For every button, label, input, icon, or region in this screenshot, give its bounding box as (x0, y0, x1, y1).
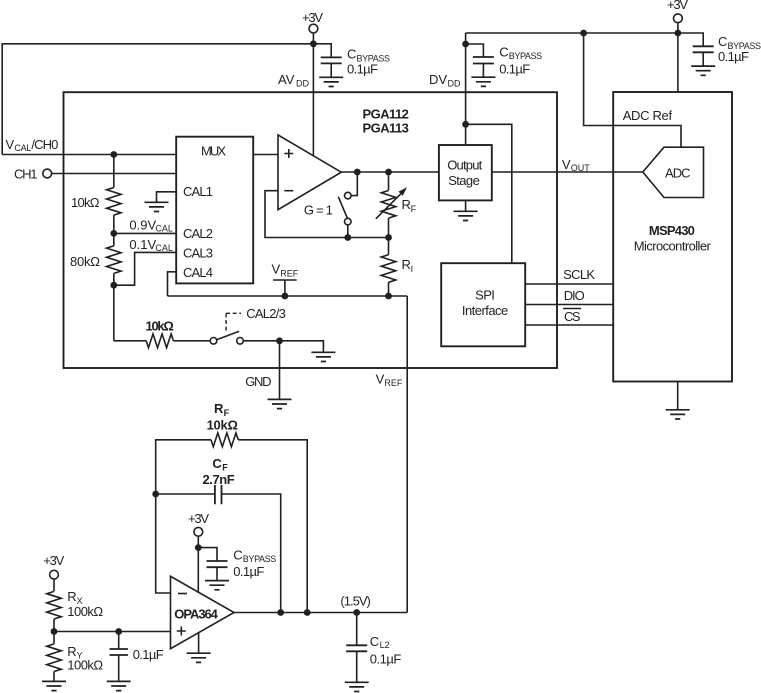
terminal CH1 (43, 169, 52, 178)
svg-text:V: V (6, 137, 15, 152)
svg-text:CH1: CH1 (14, 167, 38, 182)
label 0.1VCAL (129, 237, 173, 253)
label VREF below box (376, 371, 403, 388)
svg-text:R: R (214, 401, 224, 416)
wire switch upper lead (351, 172, 357, 196)
label CS with overbar (563, 309, 581, 324)
svg-text:CAL: CAL (14, 143, 31, 153)
wire RF bottom lead (388, 218, 390, 237)
resistor RF variable (381, 191, 396, 219)
wire VREF drop to buffer output (406, 296, 408, 613)
wire plus input row (54, 631, 171, 633)
label CBYPASS2 (499, 45, 542, 62)
wire op-amp output row (341, 171, 439, 173)
node MSP supply junction (675, 30, 682, 37)
+3V terminal (AVDD supply) (302, 10, 323, 33)
node output to RF (385, 169, 392, 176)
svg-text:CAL3: CAL3 (183, 245, 213, 260)
svg-text:+3V: +3V (667, 0, 688, 12)
Output Stage box (439, 145, 492, 200)
svg-text:F: F (411, 204, 417, 214)
node DVDD cap tap (462, 41, 469, 48)
ground Output Stage (454, 211, 478, 220)
wire CF right leg (222, 494, 281, 613)
wire CAL2 (114, 232, 176, 234)
wire RF top lead (388, 172, 390, 191)
label RI (402, 257, 414, 274)
ground CBYPASS2 (471, 77, 495, 86)
svg-text:100kΩ: 100kΩ (67, 658, 103, 673)
op-amp A1 minus sign (284, 190, 293, 192)
wire CBYPASS1 to ground (330, 63, 332, 77)
svg-text:OUT: OUT (571, 163, 591, 173)
svg-text:10kΩ: 10kΩ (71, 195, 100, 210)
svg-text:C: C (212, 456, 222, 471)
capacitor CF (215, 485, 222, 504)
op-amp OPA364 plus sign (177, 627, 186, 636)
switch G1 upper contact (345, 192, 352, 199)
svg-text:BYPASS: BYPASS (509, 51, 543, 61)
wire filter cap top lead (118, 632, 120, 650)
svg-text:CAL2/3: CAL2/3 (246, 306, 285, 321)
node ADC Ref tap (580, 30, 587, 37)
svg-text:80kΩ: 80kΩ (70, 254, 100, 269)
wire filter cap to ground (118, 655, 120, 681)
wire CH1 input (51, 173, 176, 175)
wire DIO (525, 304, 613, 306)
label RF2 (214, 401, 230, 418)
MSP430 box (613, 92, 732, 382)
svg-text:DIO: DIO (564, 288, 585, 303)
wire OPA364 to ground (198, 633, 200, 654)
wire 80k bottom lead (113, 273, 115, 285)
svg-text:10kΩ: 10kΩ (207, 418, 238, 433)
node RI to VREF row (385, 293, 392, 300)
wire VREF tick bar (273, 279, 297, 281)
ground CBYPASS1 (319, 77, 343, 86)
node DVDD to SPI tap (462, 121, 469, 128)
wire +3V OPA stem (197, 536, 199, 593)
svg-text:R: R (402, 257, 411, 272)
svg-text:C: C (718, 34, 727, 49)
wire DVDD branch to SPI (466, 124, 512, 263)
wire DVDD top rail (466, 33, 704, 46)
label CBYPASS4 (233, 547, 276, 564)
svg-text:0.1µF: 0.1µF (499, 61, 530, 76)
wire RI bottom lead (388, 282, 390, 296)
node input filter cap tap (115, 628, 122, 635)
ground CAL1 (145, 202, 169, 211)
svg-text:10kΩ: 10kΩ (146, 318, 174, 333)
svg-text:G = 1: G = 1 (304, 202, 333, 217)
capacitor input filter 0.1uF (110, 649, 128, 655)
switch G1 lower contact (345, 218, 352, 225)
op-amp A1 plus sign (284, 149, 293, 158)
+3V terminal OPA364 (188, 511, 209, 536)
wire DVDD rail down to Output Stage (465, 33, 467, 144)
svg-text:0.9V: 0.9V (129, 217, 156, 232)
wire 10k cal to switch (173, 340, 210, 342)
wire RF2 right leg (238, 440, 307, 613)
svg-text:DV: DV (429, 72, 447, 87)
wire CBYPASS3 to ground (702, 52, 704, 66)
svg-text:ADC: ADC (665, 166, 691, 181)
wire switch to ground branch (243, 341, 323, 353)
svg-text:+3V: +3V (43, 553, 64, 568)
wire divider to 10k cal resistor (114, 340, 146, 342)
svg-text:AV: AV (278, 72, 295, 87)
wire ADC Ref (584, 33, 681, 147)
wire +3V stem right (677, 23, 679, 33)
PGA112/PGA113 device box (64, 92, 558, 368)
svg-text:CAL: CAL (155, 224, 173, 234)
wire VREF row (168, 295, 408, 297)
svg-text:REF: REF (280, 268, 299, 278)
svg-text:0.1µF: 0.1µF (718, 49, 749, 64)
node switch to feedback row (344, 234, 351, 241)
svg-text:(1.5V): (1.5V) (340, 594, 371, 609)
svg-text:C: C (347, 47, 356, 62)
wire top-left feedback loop (VCAL to +3V) (2, 44, 313, 155)
svg-text:100kΩ: 100kΩ (67, 604, 103, 619)
MUX box (176, 137, 253, 284)
wire op-amp feedback to minus input (265, 191, 389, 238)
wire +3V stem (312, 33, 314, 44)
svg-text:F: F (224, 408, 230, 418)
node CF tap (152, 491, 159, 498)
svg-text:Interface: Interface (462, 303, 508, 318)
capacitor CBYPASS1 (321, 57, 342, 63)
wire RY bottom lead (53, 672, 55, 682)
wire CAL4 link to VREF row (168, 272, 177, 296)
+3V terminal top right (MSP supply) (667, 0, 688, 23)
ground CL2 (345, 682, 369, 691)
switch CAL23 right contact (237, 338, 244, 345)
resistor RI (381, 255, 396, 283)
resistor RY (47, 644, 62, 672)
svg-text:DD: DD (448, 79, 461, 89)
wire AVDD rail down to op-amp (312, 44, 314, 156)
op-amp OPA364 triangle (171, 576, 235, 648)
svg-text:Output: Output (447, 158, 482, 173)
SPI Interface box (441, 263, 525, 346)
wire MUX out to op-amp (253, 154, 278, 156)
label RY (67, 644, 82, 661)
svg-text:Microcontroller: Microcontroller (634, 238, 712, 253)
wire branch to CBYPASS2 (466, 44, 484, 57)
wire 10k bottom lead (113, 215, 115, 233)
wire SCLK (525, 283, 613, 285)
svg-text:Stage: Stage (448, 173, 480, 188)
+3V terminal RX (43, 553, 64, 579)
svg-text:CAL2: CAL2 (183, 226, 213, 241)
svg-text:OPA364: OPA364 (174, 607, 218, 622)
svg-text:GND: GND (245, 374, 271, 389)
ground MSP430 (666, 410, 690, 419)
svg-text:ADC Ref: ADC Ref (623, 108, 673, 123)
label RX (67, 589, 82, 606)
wire branch to CBYPASS4 (198, 548, 217, 561)
label AVDD pin (278, 72, 309, 89)
wire RX bottom lead (53, 619, 55, 632)
label CBYPASS1 (347, 47, 390, 64)
svg-text:C: C (370, 634, 379, 649)
wire GND stem (279, 341, 281, 400)
svg-text:V: V (562, 157, 571, 172)
svg-text:L2: L2 (380, 640, 390, 650)
label CL2 (370, 634, 390, 650)
node CL2 tap (353, 609, 360, 616)
svg-text:2.7nF: 2.7nF (203, 472, 235, 487)
label 0.9VCAL (129, 217, 173, 233)
svg-text:DD: DD (296, 79, 309, 89)
wire MSP430 to ground (677, 382, 679, 410)
svg-text:0.1µF: 0.1µF (370, 651, 402, 666)
svg-text:/CH0: /CH0 (31, 137, 58, 152)
wire CBYPASS2 to ground (482, 64, 484, 78)
ADC pentagon (643, 147, 704, 197)
ground RY (42, 681, 66, 690)
svg-text:0.1µF: 0.1µF (347, 62, 378, 77)
wire CL2 top lead (356, 613, 358, 646)
node 80k bottom junction (110, 282, 117, 289)
wire RF2 feedback loop (156, 440, 211, 494)
wire VREF tick stem (284, 280, 286, 296)
label DVDD pin (429, 72, 461, 89)
wire divider down to cal switch row (113, 285, 115, 341)
wire VOUT (492, 171, 643, 173)
resistor 10k divider top (107, 188, 122, 216)
svg-text:V: V (272, 262, 281, 277)
svg-text:R: R (67, 589, 76, 604)
svg-text:PGA113: PGA113 (363, 121, 409, 136)
switch CAL23 lever (217, 331, 239, 339)
wire feedback to minus input (156, 494, 171, 593)
svg-text:SPI: SPI (475, 288, 495, 303)
node RX RY junction (51, 628, 58, 635)
ground GND pin (268, 399, 292, 408)
svg-text:C: C (233, 547, 242, 562)
node CF leg (277, 609, 284, 616)
capacitor CBYPASS4 (207, 561, 228, 567)
label RF (402, 197, 417, 214)
ground CBYPASS4 (205, 581, 229, 590)
svg-text:0.1V: 0.1V (129, 237, 156, 252)
resistor 80k divider bottom (107, 246, 122, 274)
svg-text:REF: REF (384, 378, 403, 388)
ground filter cap (107, 681, 131, 690)
wire MSP supply down (677, 33, 679, 92)
node OPA supply tap (195, 544, 202, 551)
svg-text:PGA112: PGA112 (363, 107, 409, 122)
wire CS (525, 324, 613, 326)
wire RX top lead (53, 579, 55, 591)
wire switch lower lead (347, 225, 349, 238)
arrow RF variable (376, 193, 402, 219)
ground OPA364 (187, 653, 211, 662)
wire 80k top lead (113, 233, 115, 245)
capacitor CBYPASS2 (473, 57, 494, 64)
op-amp OPA364 minus sign (178, 593, 187, 595)
wire CAL3 link (114, 252, 176, 285)
svg-text:C: C (499, 45, 508, 60)
wire RI top lead (388, 238, 390, 255)
svg-text:BYPASS: BYPASS (243, 554, 276, 564)
wire CF left lead (156, 493, 215, 495)
ground cal switch (311, 352, 335, 361)
wire CL2 to ground (356, 651, 358, 682)
wire CAL1 to ground (157, 192, 177, 203)
wire 10k top lead (113, 155, 115, 188)
svg-text:CS: CS (564, 309, 581, 324)
label VREF internal (272, 262, 299, 279)
label CBYPASS3 (718, 34, 761, 51)
label VOUT (562, 157, 590, 173)
node CAL2 tap (110, 230, 117, 237)
svg-text:0.1µF: 0.1µF (133, 647, 164, 662)
svg-text:F: F (222, 462, 228, 472)
wire branch to CBYPASS1 (313, 44, 331, 58)
node RF RI junction (385, 234, 392, 241)
dashed control line CAL23 (226, 313, 241, 330)
resistor 10k cal (146, 334, 173, 348)
node VCAL divider tap (110, 151, 117, 158)
switch CAL23 left contact (210, 338, 217, 345)
svg-text:R: R (67, 644, 76, 659)
svg-text:MUX: MUX (201, 144, 226, 159)
node GND stem (276, 337, 283, 344)
svg-text:SCLK: SCLK (563, 267, 595, 282)
svg-text:R: R (402, 197, 411, 212)
label CF (212, 456, 228, 472)
label VCAL/CH0 input (6, 137, 59, 153)
svg-text:MSP430: MSP430 (649, 223, 695, 238)
arrowhead RF (399, 187, 408, 196)
node RF2 leg (304, 609, 311, 616)
svg-text:V: V (376, 371, 385, 386)
node AVDD junction (310, 40, 317, 47)
resistor RX (47, 591, 62, 619)
wire OPA364 output row (234, 612, 407, 614)
capacitor CBYPASS3 (693, 46, 714, 52)
svg-text:0.1µF: 0.1µF (233, 564, 264, 579)
op-amp A1 triangle (278, 135, 341, 210)
wire RY top lead (53, 632, 55, 644)
wire Output Stage to ground (465, 200, 467, 211)
node output to switch (354, 169, 361, 176)
svg-text:CAL4: CAL4 (183, 265, 213, 280)
wire VCAL/CH0 input (2, 154, 176, 156)
wire CBYPASS4 to ground (216, 567, 218, 580)
node VREF tick (282, 293, 289, 300)
ground CBYPASS3 (691, 66, 715, 75)
svg-text:+3V: +3V (188, 511, 209, 526)
svg-text:CAL1: CAL1 (183, 184, 213, 199)
switch G1 lever (338, 197, 347, 219)
svg-text:I: I (411, 264, 414, 274)
resistor RF2 (211, 433, 238, 447)
capacitor CL2 (346, 645, 367, 651)
svg-text:+3V: +3V (302, 10, 323, 25)
